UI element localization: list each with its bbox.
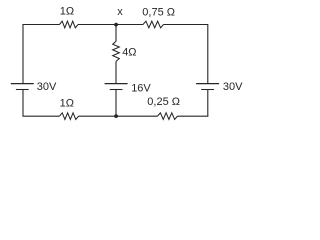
svg-text:16V: 16V <box>131 82 151 94</box>
wire right branch lower <box>207 90 209 116</box>
battery V2 16V long plate <box>105 83 128 85</box>
svg-text:0,25 Ω: 0,25 Ω <box>147 96 180 108</box>
wire right branch upper <box>207 25 209 84</box>
wire top rail <box>22 24 59 26</box>
wire top rail right <box>164 24 209 26</box>
svg-text:4Ω: 4Ω <box>122 47 136 59</box>
wire left branch lower <box>22 90 24 116</box>
battery V1 30V left short plate <box>16 89 29 91</box>
node x junction dot <box>114 23 118 27</box>
wire bottom rail left <box>22 115 59 117</box>
battery V3 30V right short plate <box>201 89 214 91</box>
bottom junction dot <box>114 114 118 118</box>
wire bottom rail right <box>178 115 209 117</box>
wire bottom rail middle through junction <box>79 115 158 117</box>
resistor R3 4ohm middle <box>113 41 120 61</box>
wire middle branch mid <box>115 61 117 83</box>
svg-text:1Ω: 1Ω <box>60 98 74 110</box>
svg-text:30V: 30V <box>37 81 57 93</box>
battery V2 16V short plate <box>110 89 123 91</box>
svg-text:30V: 30V <box>223 81 243 93</box>
battery V3 30V right long plate <box>196 83 219 85</box>
svg-text:1Ω: 1Ω <box>60 6 74 18</box>
resistor R2 0.75ohm top-right <box>143 21 164 28</box>
battery V1 30V left long plate <box>11 83 34 85</box>
resistor R5 0.25ohm bottom-right <box>158 113 178 120</box>
wire left branch upper <box>22 25 24 84</box>
svg-text:0,75 Ω: 0,75 Ω <box>142 7 175 19</box>
svg-text:x: x <box>117 6 123 18</box>
resistor R1 1ohm top-left <box>60 21 79 28</box>
wire middle branch lower <box>115 90 117 116</box>
resistor R4 1ohm bottom-left <box>60 113 79 120</box>
wire middle branch upper <box>115 25 117 42</box>
wire top rail middle through node x <box>78 24 143 26</box>
